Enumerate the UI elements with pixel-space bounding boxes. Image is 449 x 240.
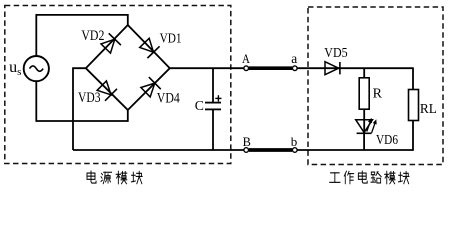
wire: source top to bridge top vertex xyxy=(36,15,128,56)
svg-text:VD6: VD6 xyxy=(376,133,398,148)
diode VD1 xyxy=(138,37,159,58)
label VD2 xyxy=(81,28,104,44)
diode VD4 xyxy=(140,77,161,98)
label R xyxy=(373,87,383,102)
wire: top rail corner down to RL xyxy=(412,67,414,89)
resistor R xyxy=(359,78,369,109)
capacitor C xyxy=(205,68,221,150)
svg-text:VD1: VD1 xyxy=(160,32,182,47)
wire: bottom rail to node B xyxy=(73,149,244,151)
diode VD3 xyxy=(96,80,117,101)
wire: bridge left vertex down to bottom rail xyxy=(73,68,86,150)
wire: node b to RL bottom corner xyxy=(297,149,413,151)
svg-text:b: b xyxy=(291,134,298,149)
module border: working circuit dashed box xyxy=(308,7,443,165)
wire: bridge right vertex to node A xyxy=(170,67,244,69)
diode VD2 xyxy=(100,33,121,54)
node B xyxy=(244,148,249,153)
label VD4 xyxy=(157,90,180,106)
module border: power module dashed box xyxy=(5,6,231,164)
svg-text:VD3: VD3 xyxy=(78,90,101,106)
wire: VD6 to bottom rail xyxy=(363,133,365,150)
LED VD6 xyxy=(356,118,377,134)
node b xyxy=(293,148,298,153)
AC source u_s xyxy=(24,56,49,81)
caption: working circuit module (工作电路模块) xyxy=(330,171,409,184)
wire: junction down to resistor R xyxy=(363,68,365,78)
svg-text:C: C xyxy=(195,98,204,113)
wire: VD5 to RL top corner xyxy=(340,67,413,69)
connector bar A-a xyxy=(249,66,292,70)
label VD5 xyxy=(324,45,348,60)
label VD1 xyxy=(160,32,182,47)
resistor RL xyxy=(409,90,419,121)
svg-text:VD2: VD2 xyxy=(81,28,104,44)
label VD6 xyxy=(376,133,398,148)
label VD3 xyxy=(78,90,101,106)
capacitor polarity + xyxy=(215,95,221,101)
svg-text:RL: RL xyxy=(420,102,437,117)
wire: node a to VD5 xyxy=(297,67,340,69)
connector bar B-b xyxy=(249,148,292,152)
label B xyxy=(243,135,251,149)
wire: bridge diamond xyxy=(86,25,170,110)
label a xyxy=(291,51,297,66)
label A xyxy=(242,52,251,66)
label RL xyxy=(420,102,437,117)
label b xyxy=(291,134,298,149)
node A xyxy=(244,66,249,71)
svg-text:VD4: VD4 xyxy=(157,90,180,106)
wire: R to VD6 xyxy=(363,109,365,133)
label u_s xyxy=(9,59,21,78)
svg-text:VD5: VD5 xyxy=(324,45,348,60)
node a xyxy=(293,66,298,71)
caption: power module (电源模块) xyxy=(87,171,142,184)
wire: RL to bottom rail xyxy=(412,121,414,151)
svg-text:R: R xyxy=(373,87,383,102)
diode VD5 xyxy=(325,62,340,75)
wire: source bottom to bridge bottom vertex xyxy=(36,81,128,121)
svg-text:A: A xyxy=(242,52,251,66)
svg-text:a: a xyxy=(291,51,297,66)
svg-text:B: B xyxy=(243,135,251,149)
label C xyxy=(195,98,204,113)
